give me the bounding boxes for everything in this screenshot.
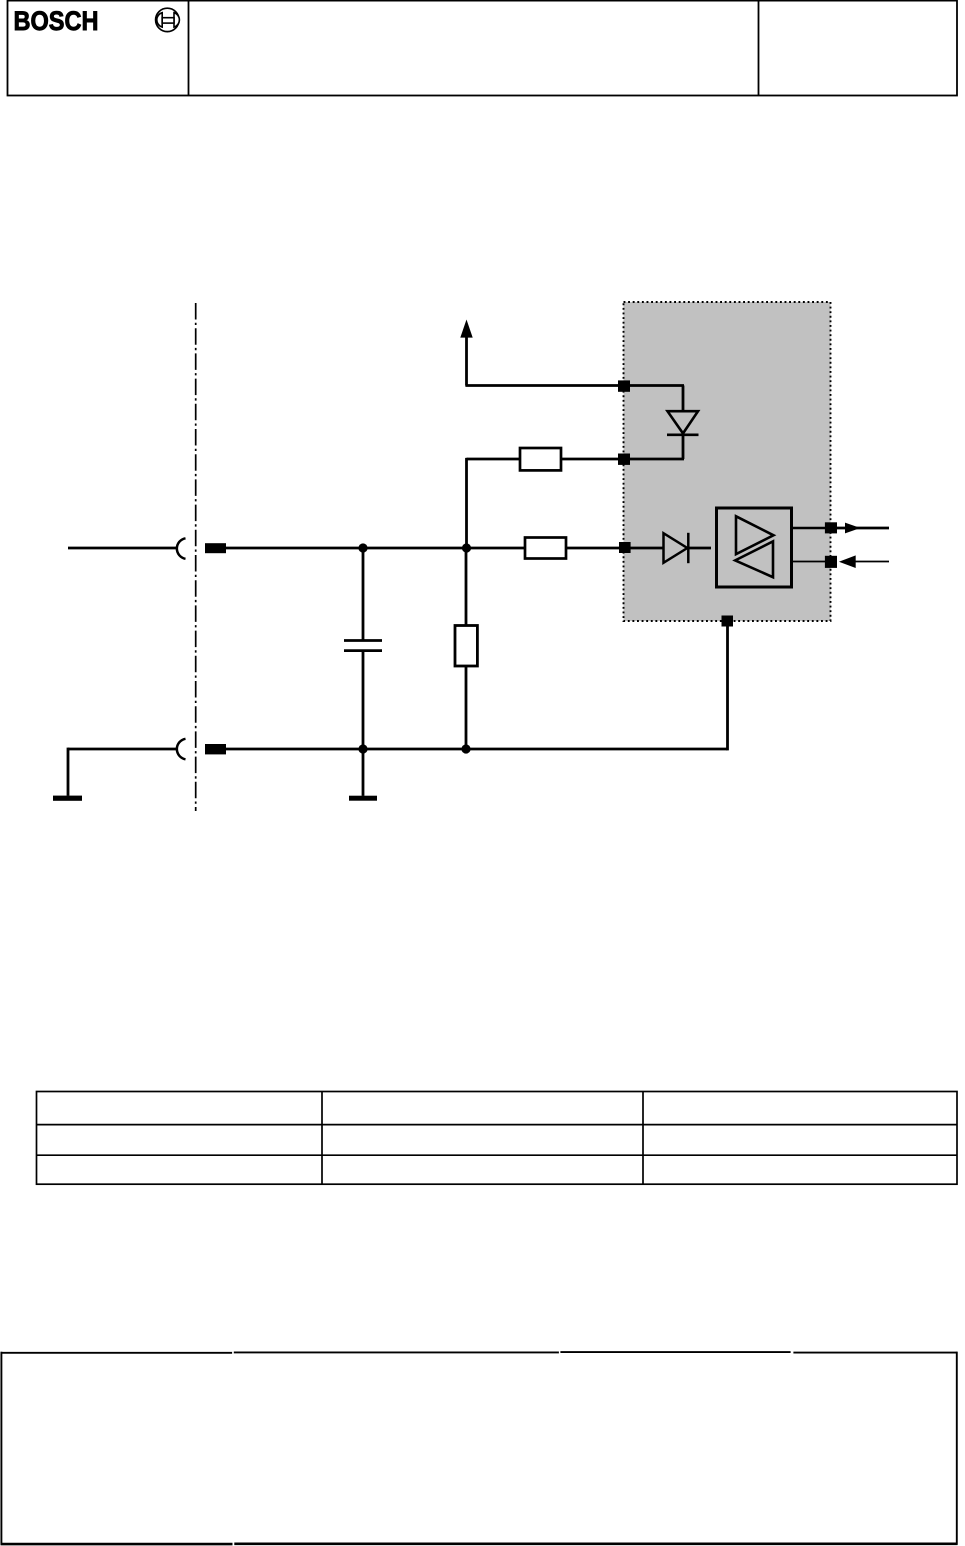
svg-text:BOSCH: BOSCH	[14, 6, 99, 36]
